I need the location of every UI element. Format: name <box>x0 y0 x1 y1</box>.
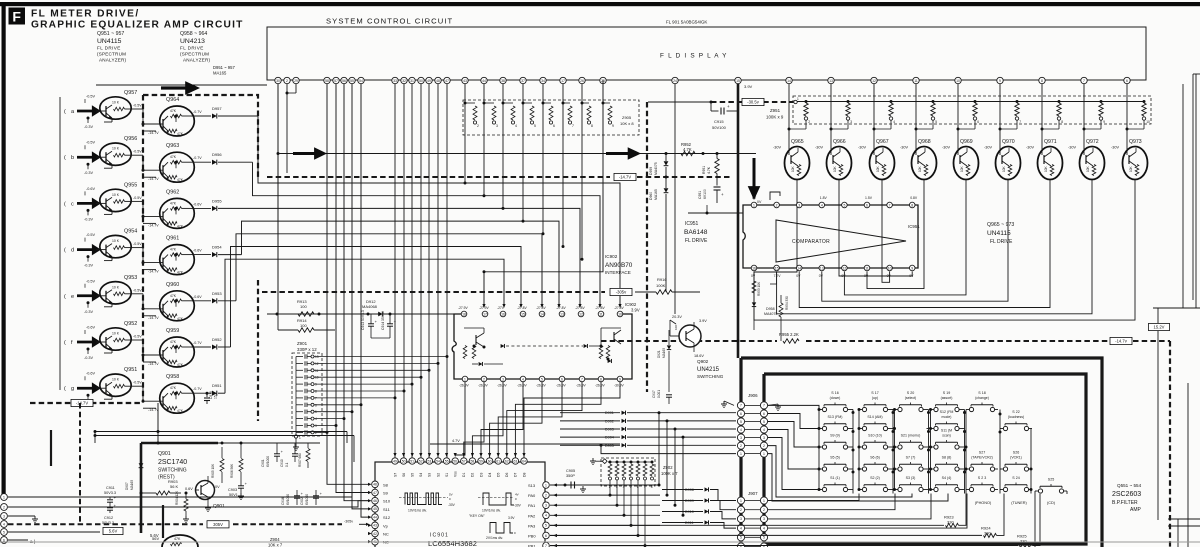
svg-text:mode): mode) <box>942 415 952 419</box>
wire D902 row <box>560 420 620 422</box>
svg-text:S11: S11 <box>383 507 391 512</box>
svg-text:Q951 ~ 957: Q951 ~ 957 <box>97 31 124 37</box>
svg-text:-27.8V: -27.8V <box>614 306 625 310</box>
IC951 top pins <box>751 202 757 208</box>
svg-text:D951: D951 <box>212 383 222 388</box>
wire Z901 pin 2 <box>314 431 327 433</box>
svg-text:5: 5 <box>843 203 845 207</box>
svg-text:D960: D960 <box>649 192 653 200</box>
svg-text:-0.6V: -0.6V <box>193 295 202 299</box>
svg-text:10: 10 <box>1146 120 1150 124</box>
svg-text:14: 14 <box>540 312 544 316</box>
svg-text:S 16: S 16 <box>831 391 838 395</box>
svg-text:S6: S6 <box>402 473 406 477</box>
wire IC901 outputs up to D901 rows <box>658 413 660 485</box>
svg-text:3: 3 <box>545 504 547 508</box>
svg-text:14: 14 <box>797 266 801 270</box>
svg-text:0V: 0V <box>909 274 914 278</box>
wire collector Q957 out <box>131 108 143 110</box>
wire signal line to down arrow <box>643 153 756 155</box>
svg-text:PA0: PA0 <box>528 493 536 498</box>
svg-text:(: ( <box>64 248 66 254</box>
wire nested bus IC951 to Q966-Q973 <box>839 186 912 276</box>
svg-text:10K: 10K <box>674 325 678 330</box>
svg-text:5: 5 <box>3 530 5 534</box>
capacitor C915 50V100 <box>710 101 713 104</box>
svg-text:AN90B70: AN90B70 <box>605 262 633 269</box>
svg-text:-27.8V: -27.8V <box>575 306 586 310</box>
voltage box 5.6V <box>103 527 123 534</box>
svg-text:2: 2 <box>477 124 479 128</box>
svg-text:-30V: -30V <box>858 146 866 150</box>
svg-text:FL DRIVE: FL DRIVE <box>990 239 1013 245</box>
transistor Q967 <box>870 147 895 180</box>
svg-text:0V: 0V <box>215 485 220 489</box>
svg-text:MA165: MA165 <box>662 348 666 358</box>
svg-text:J906: J906 <box>748 393 758 398</box>
svg-text:(: ( <box>64 109 66 115</box>
label -0.3V row e <box>87 301 90 304</box>
heavy wire L bottom-left <box>140 443 143 533</box>
wire Z901 pin 8 <box>314 390 404 392</box>
wire far right verticals <box>1182 84 1184 308</box>
svg-text:45: 45 <box>373 507 377 511</box>
svg-text:D957: D957 <box>212 106 222 111</box>
IC951 bottom pins <box>751 265 757 271</box>
svg-text:R906 56K: R906 56K <box>230 463 234 478</box>
transistor Q902 UN4215 <box>679 325 701 347</box>
svg-text:D5: D5 <box>497 473 501 477</box>
svg-text:S 2 3: S 2 3 <box>978 476 986 480</box>
svg-text:BA6148: BA6148 <box>684 229 708 236</box>
svg-text:S3: S3 <box>428 473 432 477</box>
transistor Q963 <box>160 152 195 182</box>
svg-text:Vp: Vp <box>383 523 389 528</box>
wire emitter Q958 <box>143 407 156 409</box>
svg-text:5: 5 <box>740 536 742 540</box>
transistor Q973 <box>1123 147 1148 180</box>
svg-text:Q967: Q967 <box>876 139 889 145</box>
arrow input g <box>77 382 101 394</box>
svg-text:SWITCHING: SWITCHING <box>158 468 187 474</box>
svg-text:47K: 47K <box>170 155 177 159</box>
svg-text:62: 62 <box>505 459 509 463</box>
svg-text:F L D I S P L A Y: F L D I S P L A Y <box>660 53 728 60</box>
label -0.3V row g <box>87 394 90 397</box>
svg-text:13: 13 <box>829 79 833 83</box>
IC901 waveform 2 <box>483 493 514 505</box>
arrow input c <box>77 198 101 210</box>
svg-text:-30.9V: -30.9V <box>614 384 625 388</box>
svg-text:-14.7V: -14.7V <box>148 316 159 320</box>
svg-text:IC951: IC951 <box>908 224 920 229</box>
svg-text:-14.7v: -14.7v <box>1115 339 1128 344</box>
svg-text:6: 6 <box>977 120 979 124</box>
svg-text:S13: S13 <box>528 483 536 488</box>
bold dashed line -14.7V bottom left <box>30 402 143 404</box>
wire pin15 to Q902 <box>737 340 740 343</box>
svg-text:-0.5V: -0.5V <box>86 141 96 145</box>
wire Z901 pin 10 <box>314 376 421 378</box>
svg-text:-26.9V: -26.9V <box>595 384 606 388</box>
transistor Q971 <box>1038 147 1063 180</box>
wire collector Q961 to diode <box>191 254 211 256</box>
capacitor C912 50V3.3 <box>109 505 111 507</box>
svg-text:0.6V: 0.6V <box>185 487 193 491</box>
svg-text:LC6554H3682: LC6554H3682 <box>428 539 477 547</box>
svg-text:0V: 0V <box>841 274 846 278</box>
svg-text:(loudness): (loudness) <box>1008 415 1024 419</box>
svg-text:-30V: -30V <box>1026 146 1034 150</box>
svg-text:3: 3 <box>798 203 800 207</box>
transistor Q962 <box>160 198 195 228</box>
svg-text:C914 35V10: C914 35V10 <box>381 311 385 330</box>
svg-text:-30V: -30V <box>984 146 992 150</box>
wire base Q951 <box>96 387 101 389</box>
panel box inner bold <box>764 374 1086 544</box>
wire FL pin 30 vertical <box>277 84 279 314</box>
svg-text:(TUNER): (TUNER) <box>1011 501 1027 505</box>
svg-text:Q973: Q973 <box>1129 139 1142 145</box>
svg-text:MA4075: MA4075 <box>764 312 777 316</box>
svg-text:(: ( <box>64 294 66 300</box>
svg-text:12: 12 <box>579 312 583 316</box>
wire collector Q962 to diode <box>191 207 211 209</box>
svg-text:D908: D908 <box>685 488 694 492</box>
svg-text:-0.5V: -0.5V <box>133 242 142 246</box>
svg-text:R954 330: R954 330 <box>785 296 789 310</box>
wire Z901 common <box>294 435 297 438</box>
wire IC901 PB0 <box>550 535 660 537</box>
svg-text:8: 8 <box>591 124 593 128</box>
wire Z901 pin 9 <box>314 383 412 385</box>
svg-text:R953 10K: R953 10K <box>757 281 761 296</box>
svg-text:1: 1 <box>763 499 765 503</box>
svg-text:-30.5v: -30.5v <box>747 100 760 105</box>
svg-text:-0.5V: -0.5V <box>86 95 96 99</box>
svg-text:Q901: Q901 <box>158 451 171 457</box>
transistor Q954 <box>100 235 131 257</box>
wire emitter Q959 <box>143 361 156 363</box>
svg-text:scan): scan) <box>942 434 951 438</box>
svg-text:8: 8 <box>1061 120 1063 124</box>
svg-text:D904: D904 <box>605 436 614 440</box>
bold dashed -30.5V bottom <box>8 523 203 525</box>
svg-text:-0.5V: -0.5V <box>86 233 96 237</box>
svg-text:9: 9 <box>999 79 1001 83</box>
svg-text:D903: D903 <box>605 428 614 432</box>
wire FL pins 58-54 verticals to IC901 left <box>327 84 368 484</box>
svg-text:47K: 47K <box>177 224 184 228</box>
svg-text:D8: D8 <box>522 473 526 477</box>
svg-text:C913 50V3.3: C913 50V3.3 <box>361 310 365 330</box>
svg-text:-0.3V: -0.3V <box>84 125 94 129</box>
svg-text:-0.5V: -0.5V <box>133 381 142 385</box>
IC901 top pins <box>392 458 398 464</box>
svg-text:47K: 47K <box>177 132 184 136</box>
diode D956 <box>212 160 217 165</box>
wire right nested corner <box>1153 307 1200 309</box>
transistor Q951 <box>100 374 131 396</box>
wire Q965-973 base feeds <box>788 84 790 129</box>
svg-text:ANALYZER): ANALYZER) <box>99 58 127 63</box>
svg-text:47K: 47K <box>170 109 177 113</box>
wire base Q954 <box>96 249 101 251</box>
svg-text:2: 2 <box>286 79 288 83</box>
svg-text:2: 2 <box>776 203 778 207</box>
svg-text:6: 6 <box>561 377 563 381</box>
svg-text:R955 2.2K: R955 2.2K <box>779 332 799 337</box>
svg-text:MA165: MA165 <box>213 71 227 76</box>
wire FL pins 33-47 verticals to IC901 top <box>394 84 396 460</box>
svg-text:-0.3V: -0.3V <box>84 171 94 175</box>
svg-text:100: 100 <box>300 304 307 309</box>
svg-text:18.6V: 18.6V <box>694 354 704 358</box>
svg-text:S10 (10): S10 (10) <box>868 434 882 438</box>
IC901 waveform 1 <box>405 493 442 505</box>
svg-text:S3 (3): S3 (3) <box>906 476 916 480</box>
svg-text:SYSTEM CONTROL CIRCUIT: SYSTEM CONTROL CIRCUIT <box>326 17 453 26</box>
svg-text:-14.7V: -14.7V <box>148 270 159 274</box>
wire IC901 PA2 <box>550 514 660 516</box>
svg-text:2: 2 <box>763 444 765 448</box>
wire base Q957 <box>96 110 101 112</box>
svg-text:3: 3 <box>315 424 317 428</box>
svg-text:50V100: 50V100 <box>712 125 727 130</box>
svg-text:-14.7V: -14.7V <box>148 362 159 366</box>
svg-text:3.9V: 3.9V <box>631 308 640 313</box>
svg-text:10V/1ms div.: 10V/1ms div. <box>408 509 427 513</box>
svg-text:ANALYZER): ANALYZER) <box>183 58 211 63</box>
svg-text:PB0: PB0 <box>528 534 536 539</box>
svg-text:48: 48 <box>436 79 440 83</box>
IC902 top pins <box>461 311 467 317</box>
svg-text:10K: 10K <box>876 165 880 172</box>
wire collector Q963 to diode <box>191 161 211 163</box>
panel box outer bold <box>741 358 1102 547</box>
svg-text:13: 13 <box>820 266 824 270</box>
svg-text:15.2V: 15.2V <box>1154 325 1165 330</box>
svg-text:4: 4 <box>315 417 317 421</box>
wire collector Q952 out <box>131 339 143 341</box>
svg-text:NC: NC <box>383 532 389 537</box>
capacitor C918 15P <box>206 393 208 397</box>
svg-text:2: 2 <box>763 508 765 512</box>
svg-text:S8: S8 <box>383 482 389 487</box>
svg-text:D959: D959 <box>649 167 653 175</box>
svg-text:61: 61 <box>496 459 500 463</box>
heavy wire stub x51 <box>50 430 52 466</box>
FL display pin circles <box>275 77 281 83</box>
svg-text:J907: J907 <box>748 491 758 496</box>
svg-text:-30V: -30V <box>773 146 781 150</box>
svg-text:5: 5 <box>541 377 543 381</box>
IC902 internal dashed link <box>506 345 583 347</box>
wire 7.7V node <box>776 272 778 285</box>
svg-text:10 K: 10 K <box>112 285 120 289</box>
svg-text:47K: 47K <box>170 201 177 205</box>
svg-text:32: 32 <box>402 79 406 83</box>
svg-text:43: 43 <box>373 524 377 528</box>
svg-text:IC902: IC902 <box>625 302 637 307</box>
svg-text:FL DRIVE: FL DRIVE <box>97 46 121 51</box>
svg-text:S13 (FM): S13 (FM) <box>828 415 843 419</box>
svg-text:3: 3 <box>850 120 852 124</box>
svg-text:D2: D2 <box>471 473 475 477</box>
svg-text:10K: 10K <box>1129 165 1133 172</box>
svg-text:7: 7 <box>581 377 583 381</box>
svg-text:0V: 0V <box>887 274 892 278</box>
transistor Q964 <box>160 106 195 136</box>
svg-text:10: 10 <box>888 266 892 270</box>
svg-text:-14.7V: -14.7V <box>148 131 159 135</box>
svg-text:c: c <box>71 201 74 207</box>
svg-text:-14.7V: -14.7V <box>148 408 159 412</box>
svg-text:S26: S26 <box>1013 451 1019 455</box>
wire emitter Q972 <box>1091 180 1093 187</box>
bold dashed box Q958-Q964 <box>143 95 258 177</box>
wire diode D955 output <box>218 207 247 209</box>
svg-text:3: 3 <box>740 517 742 521</box>
svg-text:100K x 9: 100K x 9 <box>766 115 784 120</box>
svg-text:47K: 47K <box>177 271 184 275</box>
svg-text:Q952: Q952 <box>124 321 137 327</box>
svg-text:D901: D901 <box>605 411 614 415</box>
svg-text:38: 38 <box>501 79 505 83</box>
svg-text:49: 49 <box>393 459 397 463</box>
svg-text:15: 15 <box>521 312 525 316</box>
bold dashed line -14.7V middle <box>267 176 610 178</box>
svg-text:0V: 0V <box>819 274 824 278</box>
svg-text:g: g <box>71 386 74 392</box>
svg-text:55: 55 <box>350 79 354 83</box>
svg-text:Q969: Q969 <box>960 139 973 145</box>
svg-text:-0.7V: -0.7V <box>193 341 202 345</box>
svg-text:10 K: 10 K <box>112 147 120 151</box>
svg-text:6V1000: 6V1000 <box>286 494 290 505</box>
svg-text:C902: C902 <box>300 497 304 505</box>
wire Q965 emitter to IC951 pin16 <box>754 186 797 272</box>
svg-text:-30V: -30V <box>1068 146 1076 150</box>
svg-text:10K: 10K <box>833 165 837 172</box>
svg-text:Q958 ~ 964: Q958 ~ 964 <box>180 31 207 37</box>
svg-text:Q972: Q972 <box>1086 139 1099 145</box>
svg-text:0.001: 0.001 <box>657 390 661 398</box>
svg-text:4: 4 <box>821 203 823 207</box>
svg-text:C916: C916 <box>281 497 285 505</box>
svg-text:44: 44 <box>373 515 377 519</box>
wire diode D956 output <box>218 161 253 163</box>
svg-text:Q954: Q954 <box>124 229 137 235</box>
svg-text:S 22: S 22 <box>1012 410 1019 414</box>
svg-text:9: 9 <box>1103 120 1105 124</box>
border top <box>0 2 1200 6</box>
svg-text:Z901: Z901 <box>297 341 308 346</box>
wire D904 row <box>560 436 620 438</box>
wire Z902 pin 5 <box>630 480 632 525</box>
svg-text:PA1: PA1 <box>528 503 536 508</box>
wire Z901 pin 11 <box>314 369 429 371</box>
svg-text:-0.5V: -0.5V <box>133 150 142 154</box>
svg-text:16: 16 <box>752 266 756 270</box>
wire collector Q959 to diode <box>191 346 211 348</box>
svg-text:5: 5 <box>315 410 317 414</box>
svg-text:29: 29 <box>294 79 298 83</box>
svg-text:-0.7V: -0.7V <box>193 387 202 391</box>
bold dashed vertical x80 <box>79 403 81 524</box>
svg-text:7: 7 <box>1083 79 1085 83</box>
svg-text:-26.9V: -26.9V <box>478 384 489 388</box>
svg-text:330P x 12: 330P x 12 <box>297 347 317 352</box>
svg-text:5V: 5V <box>449 493 453 497</box>
IC902 bottom pins <box>462 376 468 382</box>
wire edge pin1 <box>8 493 368 498</box>
transistor Q966 <box>827 147 852 180</box>
wire bottom right lines <box>1187 383 1189 547</box>
svg-text:10 K: 10 K <box>112 101 120 105</box>
wire collector Q954 out <box>131 247 143 249</box>
wire emitter Q971 <box>1049 180 1051 187</box>
svg-text:13: 13 <box>315 355 319 359</box>
wire array outline <box>96 84 267 86</box>
svg-text:D4: D4 <box>488 473 492 477</box>
transistor Q960 <box>160 291 195 321</box>
svg-text:47K: 47K <box>174 537 181 541</box>
svg-text:7: 7 <box>889 203 891 207</box>
wire IC951 left connections <box>688 212 743 214</box>
svg-text:42: 42 <box>373 532 377 536</box>
svg-text:50V1: 50V1 <box>229 493 238 497</box>
svg-text:S12: S12 <box>383 515 391 520</box>
svg-text:SWITCHING: SWITCHING <box>697 374 724 379</box>
wire Z902 pin 6 <box>637 480 639 536</box>
FL display FL901 box <box>267 27 1146 80</box>
svg-text:"KEY ON": "KEY ON" <box>469 514 485 518</box>
svg-text:S10: S10 <box>383 499 391 504</box>
svg-text:-30V: -30V <box>1111 146 1119 150</box>
svg-text:-27.8V: -27.8V <box>536 306 547 310</box>
wire Z902 pin 2 <box>609 480 611 495</box>
transistor Q901 <box>196 481 215 500</box>
svg-text:Q957: Q957 <box>124 90 137 96</box>
svg-text:-30V: -30V <box>815 146 823 150</box>
svg-text:D902: D902 <box>605 419 614 423</box>
svg-text:6: 6 <box>545 534 547 538</box>
label -0.3V row b <box>87 163 90 166</box>
wire diode D957 output <box>218 115 258 117</box>
svg-text:47: 47 <box>445 79 449 83</box>
svg-text:-0.6V: -0.6V <box>193 249 202 253</box>
svg-text:S7: S7 <box>393 473 397 477</box>
svg-text:47K: 47K <box>177 409 184 413</box>
svg-text:Q966: Q966 <box>833 139 846 145</box>
svg-text:15 P: 15 P <box>214 391 218 399</box>
svg-text:305V: 305V <box>213 522 223 527</box>
svg-text:R907 680: R907 680 <box>298 453 302 467</box>
svg-text:7: 7 <box>572 124 574 128</box>
svg-text:6: 6 <box>1126 79 1128 83</box>
wire Q902 base <box>670 335 679 337</box>
svg-text:46: 46 <box>373 499 377 503</box>
svg-text:D911: D911 <box>685 521 694 525</box>
svg-text:7: 7 <box>763 404 765 408</box>
wire edge pin3 ground <box>8 515 35 517</box>
svg-text:1: 1 <box>299 436 301 440</box>
svg-text:2: 2 <box>3 505 5 509</box>
svg-text:UN4213: UN4213 <box>180 38 205 45</box>
arrow input d <box>77 244 101 256</box>
svg-text:-0.3V: -0.3V <box>84 356 94 360</box>
